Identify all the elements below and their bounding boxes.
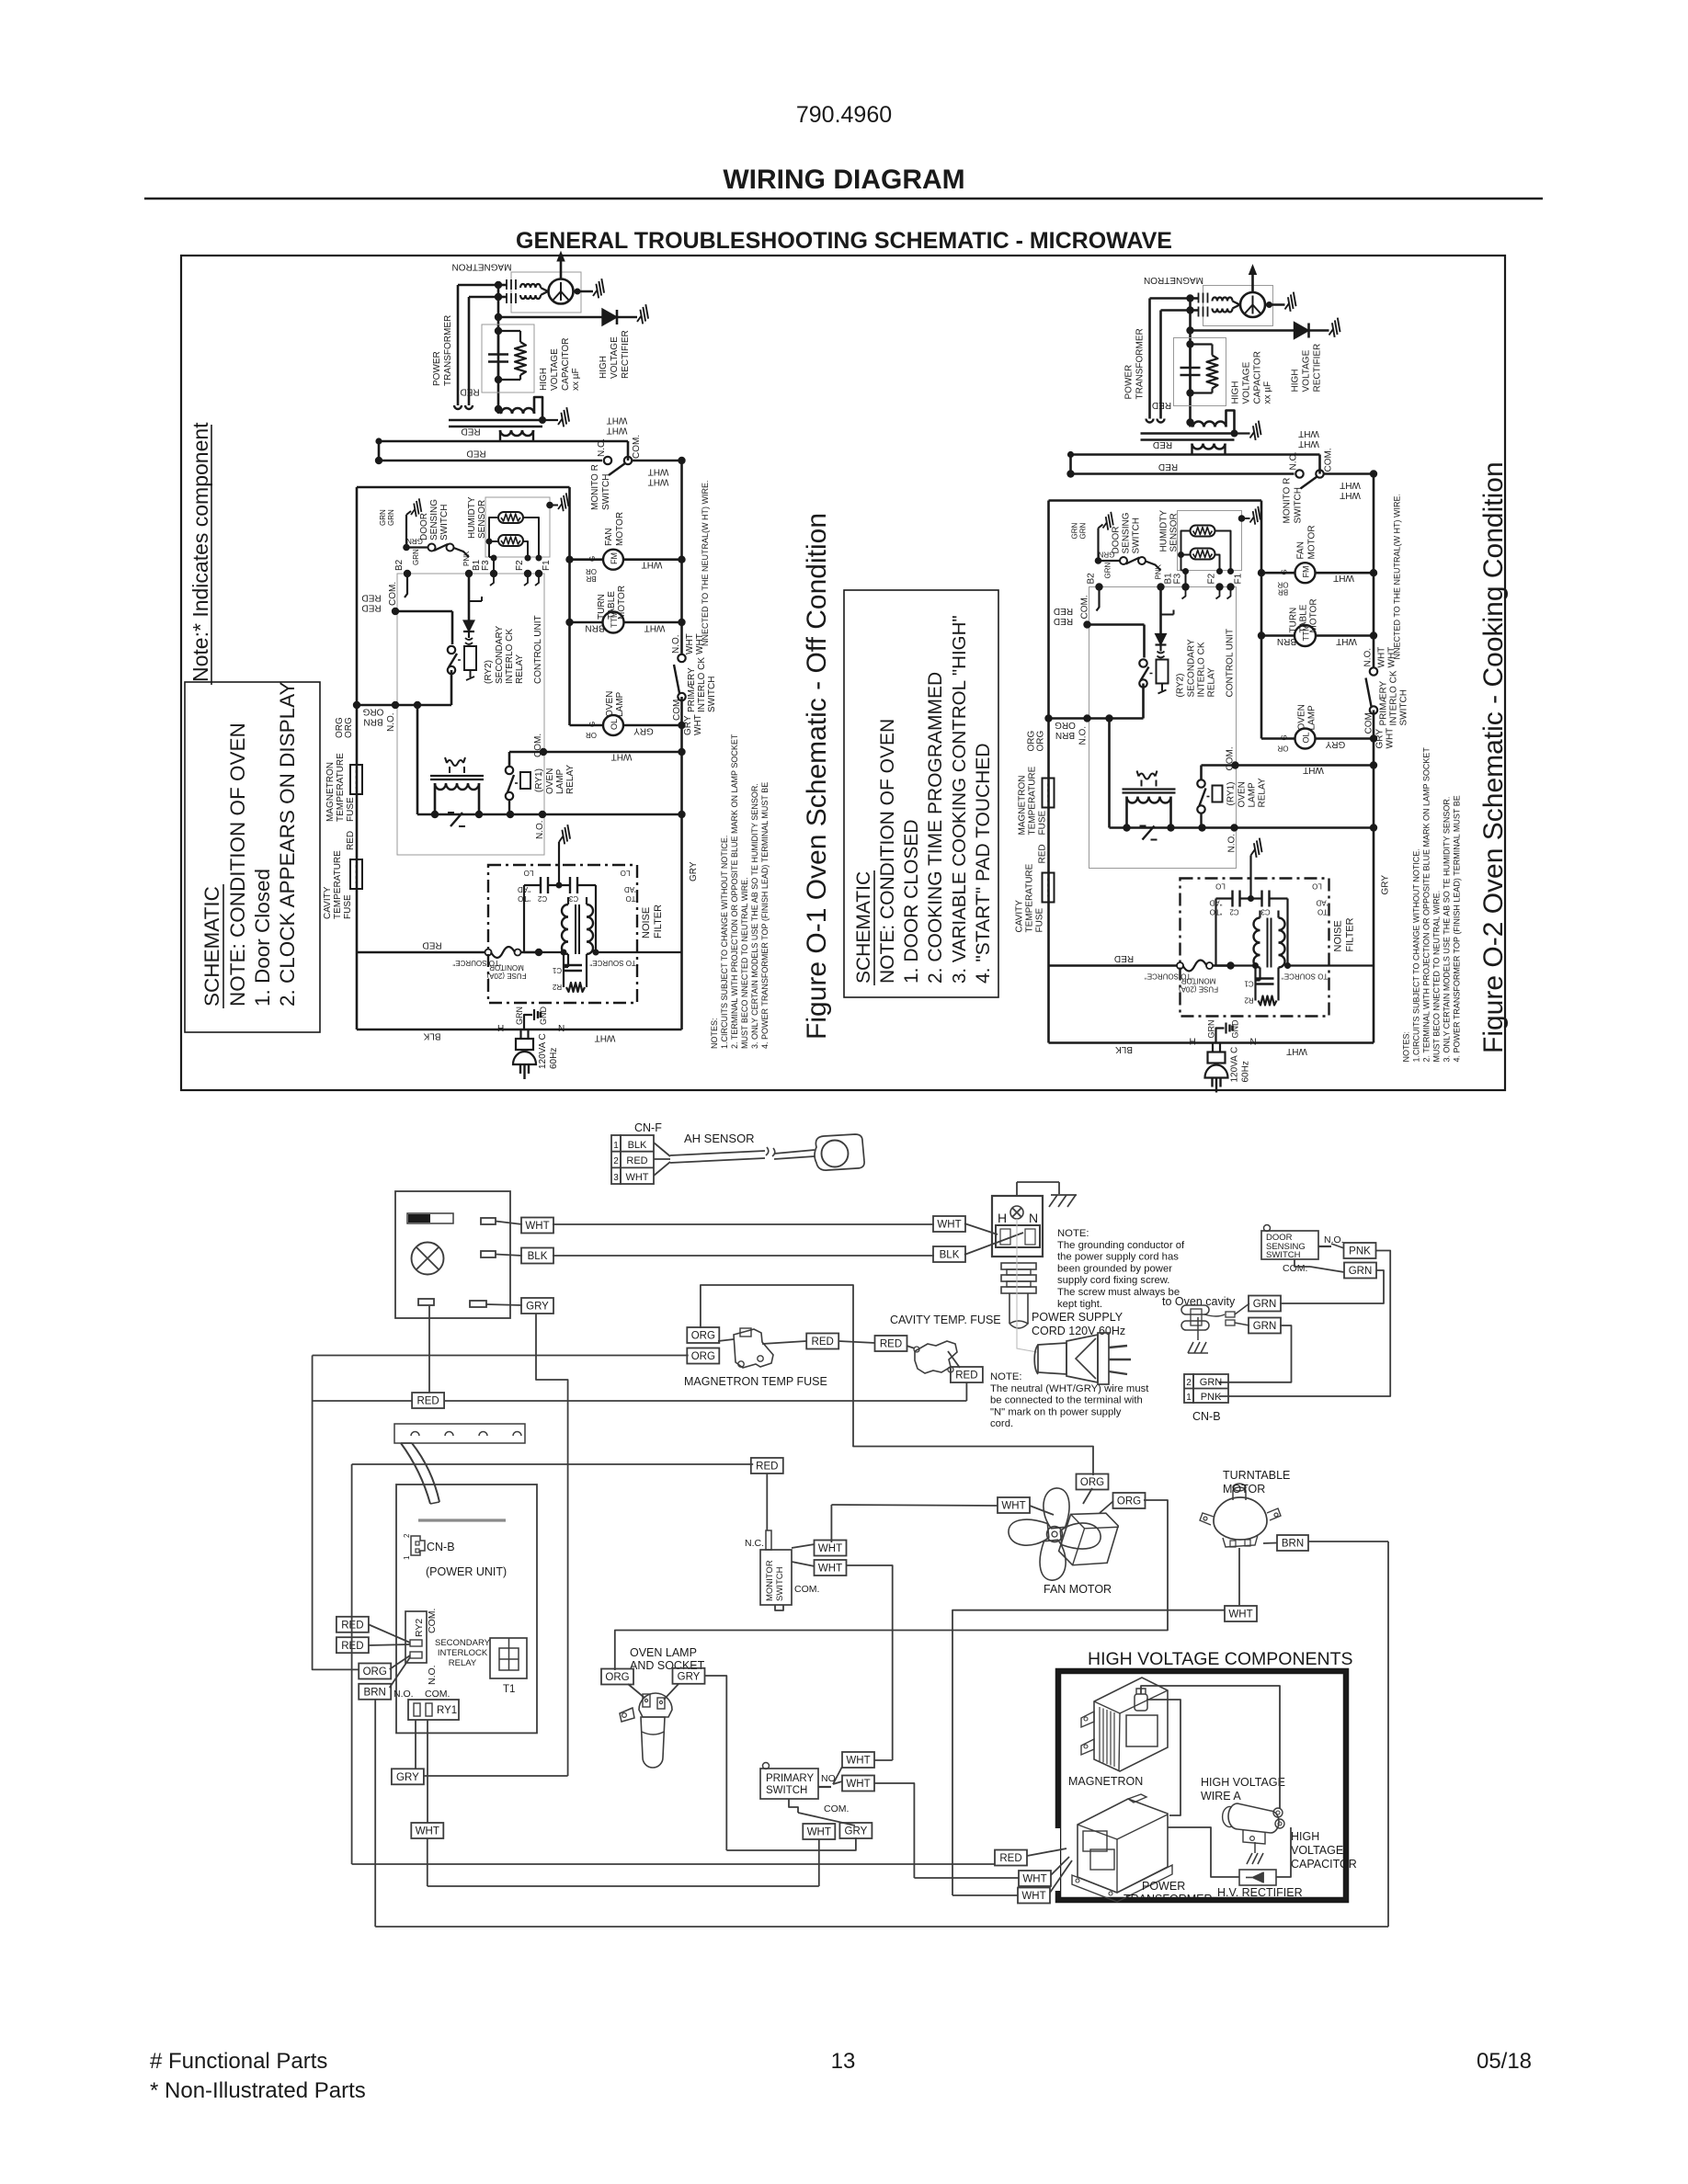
svg-text:3: 3 — [613, 1173, 619, 1183]
label box WHT monitor 1 — [815, 1541, 847, 1556]
svg-text:POWER: POWER — [432, 351, 442, 386]
svg-text:N.C.: N.C. — [745, 1538, 764, 1549]
label box WHT lower left — [411, 1823, 443, 1838]
ground at transformer secondary — [542, 406, 575, 428]
svg-text:COM.: COM. — [427, 1609, 438, 1633]
AH sensor body — [815, 1134, 864, 1170]
svg-text:MOTOR: MOTOR — [1223, 1483, 1265, 1496]
svg-text:2. TERMINAL WITH PROJECTION OR: 2. TERMINAL WITH PROJECTION OR OPPOSITE … — [730, 734, 739, 1049]
label box GRY lower left — [392, 1769, 424, 1784]
noise filter box (dash-dot) — [488, 865, 637, 1003]
svg-text:OVEN LAMP: OVEN LAMP — [630, 1646, 697, 1659]
control unit box — [397, 574, 544, 855]
label box RED left 1 — [336, 1617, 369, 1632]
power transformer label — [432, 315, 453, 386]
transformer T primary winding — [500, 430, 533, 441]
ground at rectifier — [633, 303, 654, 325]
ground at door sensing switch — [407, 497, 427, 518]
svg-text:RED: RED — [361, 602, 381, 612]
label box BRN left — [359, 1684, 391, 1700]
svg-text:GRY: GRY — [683, 715, 693, 735]
label box GRN door — [1344, 1263, 1376, 1279]
svg-text:N.O.: N.O. — [535, 820, 545, 839]
svg-text:MUST BECO NNECTED TO NEUTRAL W: MUST BECO NNECTED TO NEUTRAL WIRE. — [740, 877, 749, 1049]
label WHT WHT right — [648, 466, 669, 486]
svg-text:G: G — [588, 556, 597, 562]
svg-text:RED: RED — [955, 1371, 977, 1382]
component mark at B1 — [469, 597, 482, 601]
svg-text:Figure O-1 Oven Schematic - Of: Figure O-1 Oven Schematic - Off Conditio… — [802, 513, 832, 1040]
svg-text:ORG: ORG — [1117, 1496, 1141, 1507]
svg-text:ORG: ORG — [1080, 1477, 1104, 1488]
svg-text:SWITCH: SWITCH — [1266, 1250, 1301, 1260]
noise filter capacitor C1 — [552, 965, 582, 974]
terminal B1 — [465, 559, 482, 625]
label box WHT primary a — [842, 1752, 874, 1768]
svg-text:RECTIFIER: RECTIFIER — [621, 330, 631, 379]
svg-text:TURN: TURN — [597, 594, 607, 620]
svg-text:been grounded by power: been grounded by power — [1057, 1263, 1172, 1274]
wires fan ORG — [1083, 1488, 1113, 1513]
svg-text:OVEN: OVEN — [545, 768, 555, 794]
svg-text:"AD: "AD — [518, 885, 530, 893]
ground at magnetron — [574, 278, 610, 300]
svg-text:PNK: PNK — [1349, 1246, 1371, 1257]
svg-text:FUSE: FUSE — [346, 797, 356, 822]
noise filter label — [641, 904, 664, 938]
svg-text:WHT: WHT — [937, 1220, 961, 1231]
svg-text:60Hz: 60Hz — [549, 1048, 559, 1069]
svg-text:(POWER UNIT): (POWER UNIT) — [426, 1565, 507, 1578]
svg-text:FUSE (20A): FUSE (20A) — [486, 972, 526, 980]
svg-text:MOTOR: MOTOR — [617, 586, 627, 620]
svg-text:FM: FM — [610, 552, 619, 564]
svg-text:VOLTAGE: VOLTAGE — [550, 348, 560, 391]
second schematic (cooking condition) — [1015, 266, 1462, 1093]
svg-text:GRN: GRN — [379, 509, 387, 526]
label ORG ORG — [335, 717, 354, 738]
transformer T core — [449, 420, 542, 427]
label GRN GRN — [379, 509, 395, 526]
primary switch — [760, 1763, 855, 1826]
svg-text:cord.: cord. — [990, 1418, 1013, 1429]
svg-text:COM.: COM. — [824, 1803, 849, 1814]
label POWER TRANSFORMER — [1123, 1880, 1213, 1905]
svg-text:GRN: GRN — [412, 549, 420, 565]
svg-text:MOTOR: MOTOR — [615, 512, 625, 546]
svg-text:"TO SOURCE": "TO SOURCE" — [589, 959, 638, 967]
wires hv feed diagonals — [1027, 1848, 1072, 1893]
svg-text:NOTES:: NOTES: — [710, 1018, 719, 1049]
wire ORG long run — [313, 1356, 689, 1670]
svg-text:LAMP: LAMP — [615, 691, 625, 717]
label box WHT 2nd — [933, 1216, 965, 1232]
svg-text:BRN: BRN — [585, 622, 604, 632]
svg-text:WHT: WHT — [611, 751, 633, 761]
svg-text:OL: OL — [610, 719, 619, 730]
oven lamp OL — [570, 715, 682, 735]
svg-text:120VA C: 120VA C — [538, 1033, 548, 1069]
monitor fuse 20A — [485, 947, 543, 958]
notes block — [710, 734, 770, 1049]
svg-text:supply cord fixing screw.: supply cord fixing screw. — [1057, 1275, 1169, 1286]
label box BLK 2nd — [933, 1246, 965, 1262]
svg-text:COM.: COM. — [425, 1689, 450, 1700]
svg-text:T1: T1 — [503, 1684, 515, 1695]
RY2 labels — [484, 626, 525, 684]
relay RY2 contacts — [405, 1609, 438, 1685]
monitor fuse label — [486, 963, 526, 980]
svg-text:BLK: BLK — [940, 1250, 960, 1261]
svg-text:COM.: COM. — [632, 435, 642, 459]
svg-text:RED: RED — [460, 386, 479, 396]
svg-text:ORG: ORG — [691, 1351, 715, 1362]
svg-text:MONITO R: MONITO R — [590, 464, 600, 510]
svg-text:WHT: WHT — [416, 1826, 439, 1837]
svg-text:HIGH: HIGH — [599, 356, 609, 379]
label box RED panel — [412, 1393, 444, 1408]
wire: primary to line bus (RED) — [375, 438, 628, 464]
svg-text:TEMPERATURE: TEMPERATURE — [336, 753, 346, 822]
svg-text:BLK: BLK — [528, 1251, 548, 1262]
label box WHT below primary — [803, 1824, 835, 1839]
svg-text:OR: OR — [586, 731, 597, 739]
label POWER SUPPLY CORD — [1032, 1311, 1125, 1337]
high voltage rectifier label — [599, 330, 631, 379]
svg-text:GRN: GRN — [1200, 1377, 1223, 1388]
monitor switch WHT stubs — [792, 1544, 815, 1566]
oven cavity tab — [1181, 1303, 1249, 1353]
label box WHT hv 1 — [1019, 1871, 1051, 1886]
label RED RED — [361, 592, 381, 612]
fan motor label — [604, 512, 625, 546]
label box RED left 2 — [336, 1637, 369, 1653]
wires lamp to boxes — [628, 1684, 679, 1700]
svg-text:FAN MOTOR: FAN MOTOR — [1044, 1583, 1112, 1596]
receptacle ground wire — [1017, 1182, 1077, 1207]
svg-text:COM.: COM. — [794, 1584, 819, 1595]
label box RED monitor — [751, 1458, 783, 1473]
svg-text:SCHEMATIC: SCHEMATIC — [853, 871, 874, 984]
RY2 relay coil box — [464, 646, 476, 680]
RY1 pilot coil — [445, 757, 465, 773]
HV rectifier diode D1 — [498, 309, 637, 325]
label OVEN LAMP AND SOCKET — [630, 1646, 705, 1672]
svg-text:GENERAL TROUBLESHOOTING SCHEMA: GENERAL TROUBLESHOOTING SCHEMATIC - MICR… — [516, 228, 1172, 254]
svg-text:be connected to the terminal w: be connected to the terminal with — [990, 1395, 1143, 1406]
svg-text:CAPACITOR: CAPACITOR — [1291, 1858, 1357, 1871]
svg-text:MONITOR: MONITOR — [765, 1560, 775, 1601]
svg-text:RY1: RY1 — [437, 1705, 457, 1716]
label G OR BR at FM — [586, 556, 597, 583]
svg-text:WHT: WHT — [807, 1827, 831, 1838]
svg-text:PRIMARY: PRIMARY — [766, 1773, 815, 1784]
svg-text:GRN: GRN — [1253, 1299, 1277, 1310]
svg-text:WHT: WHT — [607, 425, 628, 435]
power transformer 3D — [1072, 1794, 1172, 1902]
svg-text:ORG: ORG — [605, 1672, 629, 1683]
wire WHT drop and run — [428, 1838, 819, 1886]
svg-text:WHT: WHT — [818, 1564, 842, 1575]
receptacle cord to plug — [1017, 1219, 1037, 1352]
monitor switch label — [590, 464, 611, 510]
door sensing switch component — [1261, 1225, 1344, 1275]
wire RED to monitor switch — [352, 1464, 754, 1864]
wire GRY link to primary — [726, 1837, 856, 1850]
svg-text:2: 2 — [613, 1156, 619, 1166]
wire: RY1 COM to bus — [509, 748, 682, 767]
svg-text:2: 2 — [1186, 1378, 1192, 1388]
cavity temperature fuse F — [350, 859, 362, 889]
svg-text:AH SENSOR: AH SENSOR — [684, 1132, 755, 1145]
label HIGH VOLTAGE WIRE A — [1201, 1776, 1285, 1803]
noise filter choke L1 — [524, 885, 593, 954]
svg-text:N.C.: N.C. — [597, 438, 607, 457]
svg-text:MAGNETRON: MAGNETRON — [1068, 1775, 1143, 1788]
svg-text:OVEN: OVEN — [605, 691, 615, 717]
RY2 relay diode — [463, 620, 474, 644]
svg-text:4. "START" PAD TOUCHED: 4. "START" PAD TOUCHED — [973, 743, 994, 984]
svg-text:NOTE: CONDITION OF OVEN: NOTE: CONDITION OF OVEN — [877, 719, 898, 984]
wire turntable to BRN — [1263, 1542, 1277, 1545]
svg-text:WHT: WHT — [1228, 1610, 1252, 1621]
magnetron temperature fuse label — [325, 753, 356, 822]
svg-text:BRN: BRN — [363, 716, 382, 726]
svg-text:1: 1 — [1186, 1393, 1192, 1403]
svg-text:WHT: WHT — [648, 466, 669, 476]
svg-text:INTERLOCK: INTERLOCK — [438, 1648, 488, 1658]
svg-text:RELAY: RELAY — [565, 765, 576, 794]
label box GRN cavity 2 — [1249, 1318, 1281, 1334]
plug P1 grounding — [524, 1009, 541, 1029]
svg-text:PNK: PNK — [462, 551, 471, 566]
schematic notes box 1 — [185, 682, 320, 1032]
svg-text:C2: C2 — [537, 894, 547, 903]
label box ORG lamp — [601, 1669, 633, 1685]
wire GRY row — [486, 1298, 568, 1776]
wire ORG2 loop — [615, 1500, 1168, 1670]
svg-text:CONTROL UNIT: CONTROL UNIT — [533, 615, 543, 684]
wire WHT primary a run — [874, 1759, 893, 1761]
svg-text:05/18: 05/18 — [1477, 2049, 1532, 2074]
svg-text:COM.: COM. — [388, 582, 398, 606]
noise filter resistor R2 — [552, 983, 585, 992]
svg-text:TRANSFORMER: TRANSFORMER — [1123, 1893, 1213, 1905]
svg-text:OR: OR — [586, 567, 597, 575]
wire: left loop top edge — [357, 487, 570, 952]
turntable motor TTM — [570, 611, 682, 633]
svg-text:WHT: WHT — [685, 633, 695, 654]
svg-text:CN-F: CN-F — [634, 1121, 662, 1134]
svg-text:LAMP: LAMP — [555, 768, 565, 794]
svg-text:WHT: WHT — [607, 415, 628, 425]
wire: RED bus to monitor switch — [379, 460, 602, 462]
svg-text:DOOR: DOOR — [419, 513, 429, 540]
svg-text:H: H — [998, 1211, 1007, 1225]
svg-text:RED: RED — [422, 939, 441, 950]
svg-text:kept tight.: kept tight. — [1057, 1299, 1102, 1310]
wire GRN run — [1280, 1270, 1384, 1303]
svg-text:TRANSFORMER: TRANSFORMER — [443, 315, 453, 386]
svg-text:the power supply cord has: the power supply cord has — [1057, 1252, 1179, 1263]
svg-text:WHT: WHT — [1001, 1501, 1025, 1512]
HV rectifier symbol — [1239, 1870, 1276, 1885]
svg-text:NOTE:: NOTE: — [990, 1371, 1022, 1382]
note: indicates component (rotated label) — [188, 422, 212, 685]
magnetron filament choke coils — [520, 284, 549, 299]
connector CN-F — [611, 1121, 662, 1184]
svg-text:WIRE A: WIRE A — [1201, 1790, 1241, 1803]
wire: filament feeds to transformer — [454, 285, 507, 409]
svg-text:FUSE: FUSE — [343, 894, 353, 919]
ground in HV box — [1247, 1842, 1263, 1864]
svg-text:HUMIDTY: HUMIDTY — [467, 496, 477, 539]
svg-text:BLK: BLK — [628, 1140, 647, 1151]
label box ORG fan 2 — [1113, 1493, 1146, 1508]
horizontal rule — [144, 198, 1543, 199]
svg-text:RED: RED — [461, 426, 480, 436]
svg-text:G: G — [588, 722, 597, 727]
svg-text:C3: C3 — [568, 894, 578, 903]
terminals F3 F2 F1 — [481, 560, 552, 586]
svg-text:CAVITY: CAVITY — [323, 886, 333, 919]
svg-text:N.O.: N.O. — [427, 1665, 438, 1685]
door sensing switch S2 — [403, 511, 469, 557]
wire ORG loop to fan — [701, 1285, 1093, 1475]
svg-text:Note:* Indicates component: Note:* Indicates component — [188, 422, 212, 682]
svg-text:WHT: WHT — [644, 622, 666, 632]
wire RED drop to long run — [965, 1382, 967, 1401]
svg-text:TURNTABLE: TURNTABLE — [1223, 1469, 1290, 1482]
label box RED cavity left — [875, 1336, 907, 1351]
label LO TO AD marks — [518, 869, 637, 903]
fan motor drawing — [996, 1475, 1124, 1597]
svg-text:2: 2 — [403, 1533, 411, 1538]
svg-text:Figure O-2 Oven Schematic - Co: Figure O-2 Oven Schematic - Cooking Cond… — [1478, 461, 1509, 1053]
svg-text:LO: LO — [621, 869, 631, 877]
svg-text:FAN: FAN — [604, 529, 614, 546]
wire RED to cavity fuse — [838, 1341, 875, 1343]
svg-text:1.CIRCUITS SUBJECT TO CHANGE W: 1.CIRCUITS SUBJECT TO CHANGE WITHOUT NOT… — [720, 836, 729, 1049]
label 120VAC 60Hz — [538, 1033, 559, 1069]
svg-text:HIGH: HIGH — [539, 368, 549, 391]
receptacle mounting threads — [1001, 1263, 1036, 1328]
magnetron V1 tube circle — [549, 252, 574, 304]
monitor switch component — [745, 1530, 819, 1610]
label box GRN cavity 1 — [1249, 1296, 1281, 1312]
footer functional parts — [150, 2049, 366, 2103]
wire WHT row — [496, 1218, 934, 1234]
svg-text:VOLTAGE: VOLTAGE — [1291, 1844, 1343, 1857]
svg-text:MONITOR: MONITOR — [489, 963, 524, 972]
svg-text:F3: F3 — [481, 560, 491, 571]
svg-text:WHT: WHT — [595, 1032, 616, 1042]
svg-text:2. COOKING TIME PROGRAMMED: 2. COOKING TIME PROGRAMMED — [925, 672, 946, 984]
svg-text:HIGH VOLTAGE COMPONENTS: HIGH VOLTAGE COMPONENTS — [1088, 1649, 1353, 1669]
relay RY1 box — [408, 1700, 459, 1720]
svg-text:SWITCH: SWITCH — [775, 1566, 785, 1601]
svg-text:GRY: GRY — [689, 861, 699, 882]
svg-text:RELAY: RELAY — [515, 654, 525, 684]
connector CN-B on power unit — [403, 1533, 455, 1560]
schematic notes box 2 — [844, 590, 998, 997]
svg-text:790.4960: 790.4960 — [796, 102, 892, 128]
label box ORG fan 1 — [1077, 1474, 1109, 1490]
svg-text:C1: C1 — [552, 966, 562, 974]
humidity sensor wires — [486, 518, 542, 574]
neutral link symbol — [448, 813, 465, 826]
svg-text:CN-B: CN-B — [1192, 1410, 1221, 1423]
svg-text:FILTER: FILTER — [653, 904, 664, 938]
magnetron temp fuse bracket — [718, 1328, 806, 1368]
svg-text:F2: F2 — [515, 560, 525, 571]
svg-text:MAGNETRON: MAGNETRON — [325, 762, 336, 822]
svg-text:RY2: RY2 — [414, 1619, 425, 1637]
svg-text:SENSOR: SENSOR — [477, 500, 487, 539]
svg-text:GRY: GRY — [678, 1671, 701, 1682]
wire BLK row — [496, 1248, 934, 1264]
svg-text:(RY1): (RY1) — [534, 768, 544, 792]
magnetron temperature fuse F — [350, 765, 362, 794]
primary interlock switch S3 — [674, 654, 686, 700]
svg-text:1: 1 — [613, 1141, 619, 1151]
wire: COM to RY2 switch — [392, 608, 452, 644]
svg-text:RED: RED — [812, 1337, 834, 1348]
svg-text:SWITCH: SWITCH — [707, 677, 717, 712]
svg-text:SCHEMATIC: SCHEMATIC — [200, 886, 223, 1007]
svg-text:COM.: COM. — [672, 697, 682, 721]
svg-text:RED: RED — [756, 1462, 778, 1473]
note grounding conductor text — [1057, 1228, 1185, 1310]
svg-text:CAVITY TEMP. FUSE: CAVITY TEMP. FUSE — [890, 1314, 1001, 1326]
high voltage capacitor C symbol — [488, 331, 508, 380]
svg-text:1. Door Closed: 1. Door Closed — [251, 869, 274, 1007]
svg-text:ORG: ORG — [363, 1666, 387, 1678]
svg-text:SWITCH: SWITCH — [766, 1785, 807, 1796]
primary interlock switch label — [687, 657, 717, 712]
svg-text:1. DOOR CLOSED: 1. DOOR CLOSED — [901, 819, 922, 984]
cavity temp fuse bracket — [907, 1341, 960, 1373]
label GRY WHT at interlock — [683, 714, 703, 735]
svg-text:HIGH: HIGH — [1291, 1830, 1319, 1843]
bleed resistor R symbol — [498, 331, 526, 380]
wire monitor WHT2 run — [846, 1565, 893, 1760]
svg-text:RED: RED — [416, 1396, 439, 1407]
wire: relay bottom row — [417, 800, 682, 818]
secondary interlock relay RY2 switch — [448, 646, 464, 674]
label HIGH VOLTAGE CAPACITOR — [1291, 1830, 1357, 1871]
wire WHT to receptacle — [964, 1223, 998, 1234]
wire: HV node vertical — [495, 281, 507, 414]
receptacle — [992, 1196, 1043, 1257]
transformer T secondary winding — [498, 397, 546, 424]
oven lamp socket — [620, 1693, 672, 1768]
label box BRN turntable — [1277, 1535, 1308, 1551]
svg-text:WHT: WHT — [846, 1779, 870, 1790]
svg-text:SWITCH: SWITCH — [439, 505, 450, 540]
control panel assembly — [395, 1191, 510, 1318]
svg-text:N: N — [558, 1024, 565, 1034]
label ORG BRN — [362, 706, 383, 726]
cavity temperature fuse label — [323, 850, 353, 919]
humidity sensor element 1 — [498, 512, 523, 523]
svg-text:TO: TO — [626, 894, 636, 903]
svg-text:1: 1 — [403, 1555, 411, 1560]
wires ORG BRN to RY2 — [390, 1655, 410, 1688]
label box WHT turntable — [1225, 1606, 1257, 1621]
wire fan WHT run — [831, 1505, 1054, 1515]
magnetron assembly 3D — [1081, 1678, 1168, 1771]
